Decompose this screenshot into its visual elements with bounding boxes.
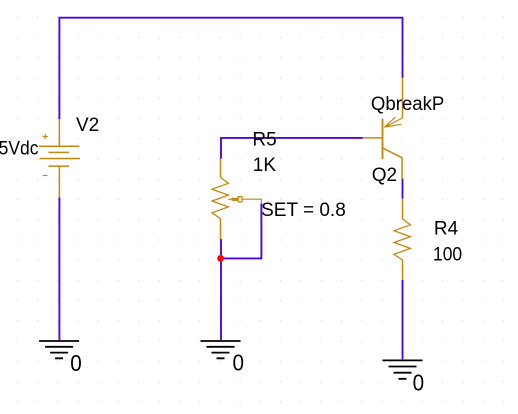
- svg-text:Q2: Q2: [372, 165, 397, 186]
- svg-text:100: 100: [433, 243, 462, 265]
- svg-text:R4: R4: [434, 219, 459, 240]
- svg-text:1K: 1K: [253, 155, 277, 176]
- svg-text:R5: R5: [252, 130, 276, 151]
- svg-text:5Vdc: 5Vdc: [0, 137, 38, 159]
- svg-text:V2: V2: [76, 115, 99, 136]
- svg-text:0: 0: [233, 349, 245, 376]
- svg-text:0: 0: [70, 350, 82, 377]
- svg-text:QbreakP: QbreakP: [371, 93, 444, 114]
- svg-text:0: 0: [413, 369, 425, 396]
- svg-text:SET = 0.8: SET = 0.8: [261, 200, 346, 221]
